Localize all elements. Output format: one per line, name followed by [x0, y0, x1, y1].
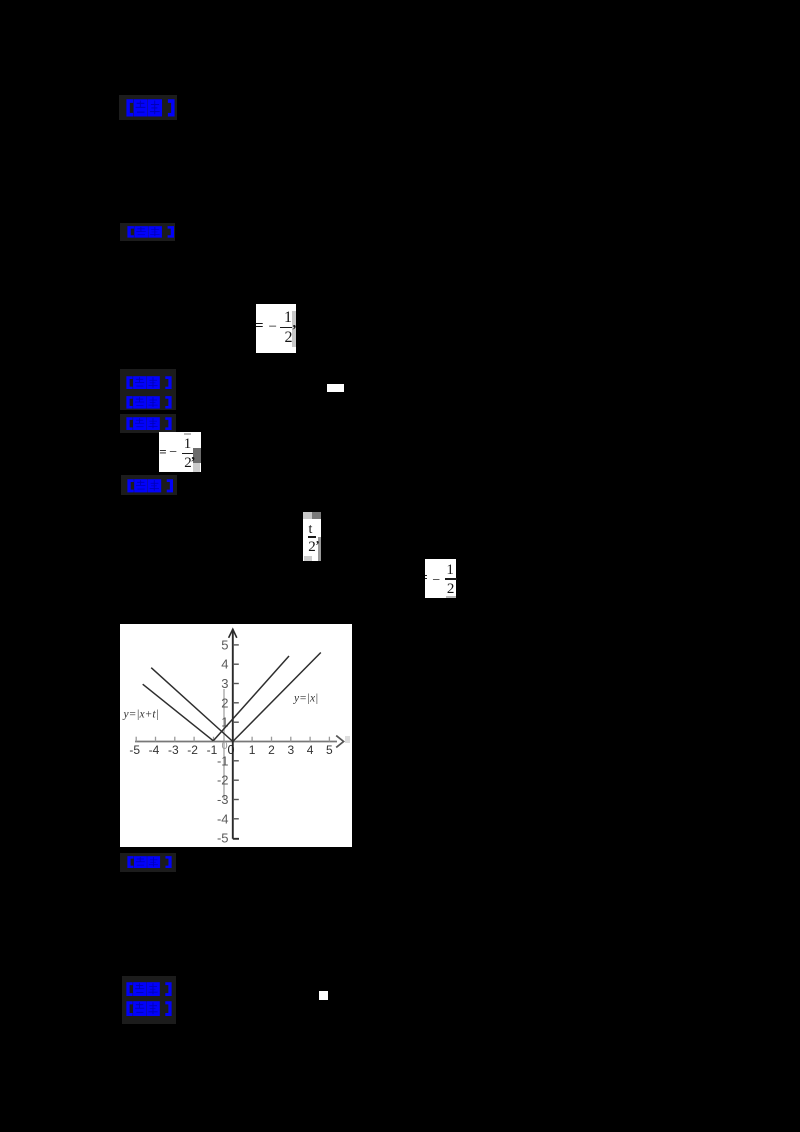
x-axis [135, 741, 337, 743]
formula image 1: = -1/2 [256, 304, 296, 353]
highlight box 6 [120, 853, 176, 872]
svg-text:4: 4 [221, 657, 228, 672]
graph image: y=|x| and y=|x+t| [120, 624, 352, 847]
svg-text:-5: -5 [129, 743, 140, 757]
svg-text:5: 5 [326, 743, 333, 757]
svg-text:3: 3 [287, 743, 294, 757]
x ticks [135, 737, 137, 742]
svg-text:-4: -4 [216, 811, 228, 826]
svg-text:-2: -2 [216, 773, 228, 788]
svg-text:-2: -2 [187, 743, 198, 757]
curve y=|x+t| right branch [213, 656, 289, 741]
highlight box 2 [120, 223, 175, 241]
svg-text:-3: -3 [167, 743, 178, 757]
formula image 2: = -1/2 [159, 432, 200, 472]
blue label 7 [127, 856, 172, 869]
blue label 3 [126, 376, 172, 390]
svg-text:0: 0 [227, 743, 234, 757]
y ticks [232, 721, 238, 723]
curve y=|x+t| left branch [142, 684, 213, 741]
svg-text:y=|x|: y=|x| [293, 693, 318, 705]
svg-text:5: 5 [221, 637, 228, 652]
highlight box 3 [120, 369, 176, 410]
white blank square [319, 991, 328, 1000]
svg-text:y=|x+t|: y=|x+t| [122, 709, 158, 721]
highlight box 5 [121, 475, 177, 495]
x-axis arrow [336, 736, 343, 748]
blue label 6 [127, 479, 174, 493]
svg-text:2: 2 [268, 743, 275, 757]
blue label 5 [126, 417, 172, 430]
svg-text:3: 3 [221, 676, 228, 691]
highlight box 7 [122, 976, 176, 1024]
curve y=|x| right branch [232, 653, 320, 742]
formula image 3: t/2 [303, 512, 321, 562]
blue label 9 [126, 1001, 172, 1017]
svg-text:1: 1 [248, 743, 255, 757]
svg-text:-5: -5 [216, 831, 228, 846]
blue label 1 [126, 99, 175, 117]
highlight box 1 [119, 95, 177, 120]
svg-text:4: 4 [306, 743, 313, 757]
white blank dash [327, 384, 344, 392]
blue label 2 [127, 226, 175, 238]
svg-text:-4: -4 [148, 743, 159, 757]
formula image 4: -1/2 [425, 559, 456, 598]
y-axis arrow [228, 629, 236, 638]
svg-text:-1: -1 [216, 753, 228, 768]
blue label 8 [126, 982, 172, 997]
highlight box 4 [120, 414, 176, 434]
svg-text:-3: -3 [216, 792, 228, 807]
svg-text:2: 2 [221, 695, 228, 710]
y-axis foot [232, 838, 238, 840]
y-axis [231, 630, 233, 839]
gray artifact line [223, 689, 225, 800]
gray block after arrow [345, 736, 350, 743]
curve y=|x| left branch [151, 668, 233, 742]
blue label 4 [126, 396, 172, 409]
